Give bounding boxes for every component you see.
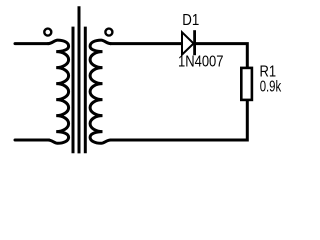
diode D1 cathode bar — [193, 30, 196, 55]
transformer primary winding (left coil) — [48, 40, 69, 143]
label R1 — [260, 63, 277, 80]
wire: primary bottom lead — [15, 139, 49, 142]
wire: diode cathode to top-right corner and down to resistor R1 top — [195, 44, 247, 67]
wire: secondary top lead to diode anode — [110, 42, 182, 45]
wire: primary top lead — [15, 42, 49, 45]
resistor R1 body — [241, 68, 252, 100]
transformer core line (left) — [72, 27, 75, 154]
transformer core line (middle) — [78, 6, 81, 153]
diode D1 triangle (anode) — [182, 32, 194, 54]
secondary polarity dot — [105, 29, 112, 36]
primary polarity dot — [44, 29, 51, 36]
wire: resistor R1 bottom down and bottom return wire to secondary — [110, 100, 247, 140]
label D1 — [182, 12, 199, 29]
transformer secondary winding (right coil, bulges toward core) — [90, 40, 111, 143]
svg-text:1N4007: 1N4007 — [178, 53, 224, 70]
value label 1N4007 — [178, 53, 224, 70]
svg-text:0.9k: 0.9k — [260, 79, 282, 96]
transformer core line (right) — [84, 27, 87, 154]
svg-text:D1: D1 — [182, 12, 199, 29]
value label 0.9k — [260, 79, 282, 96]
